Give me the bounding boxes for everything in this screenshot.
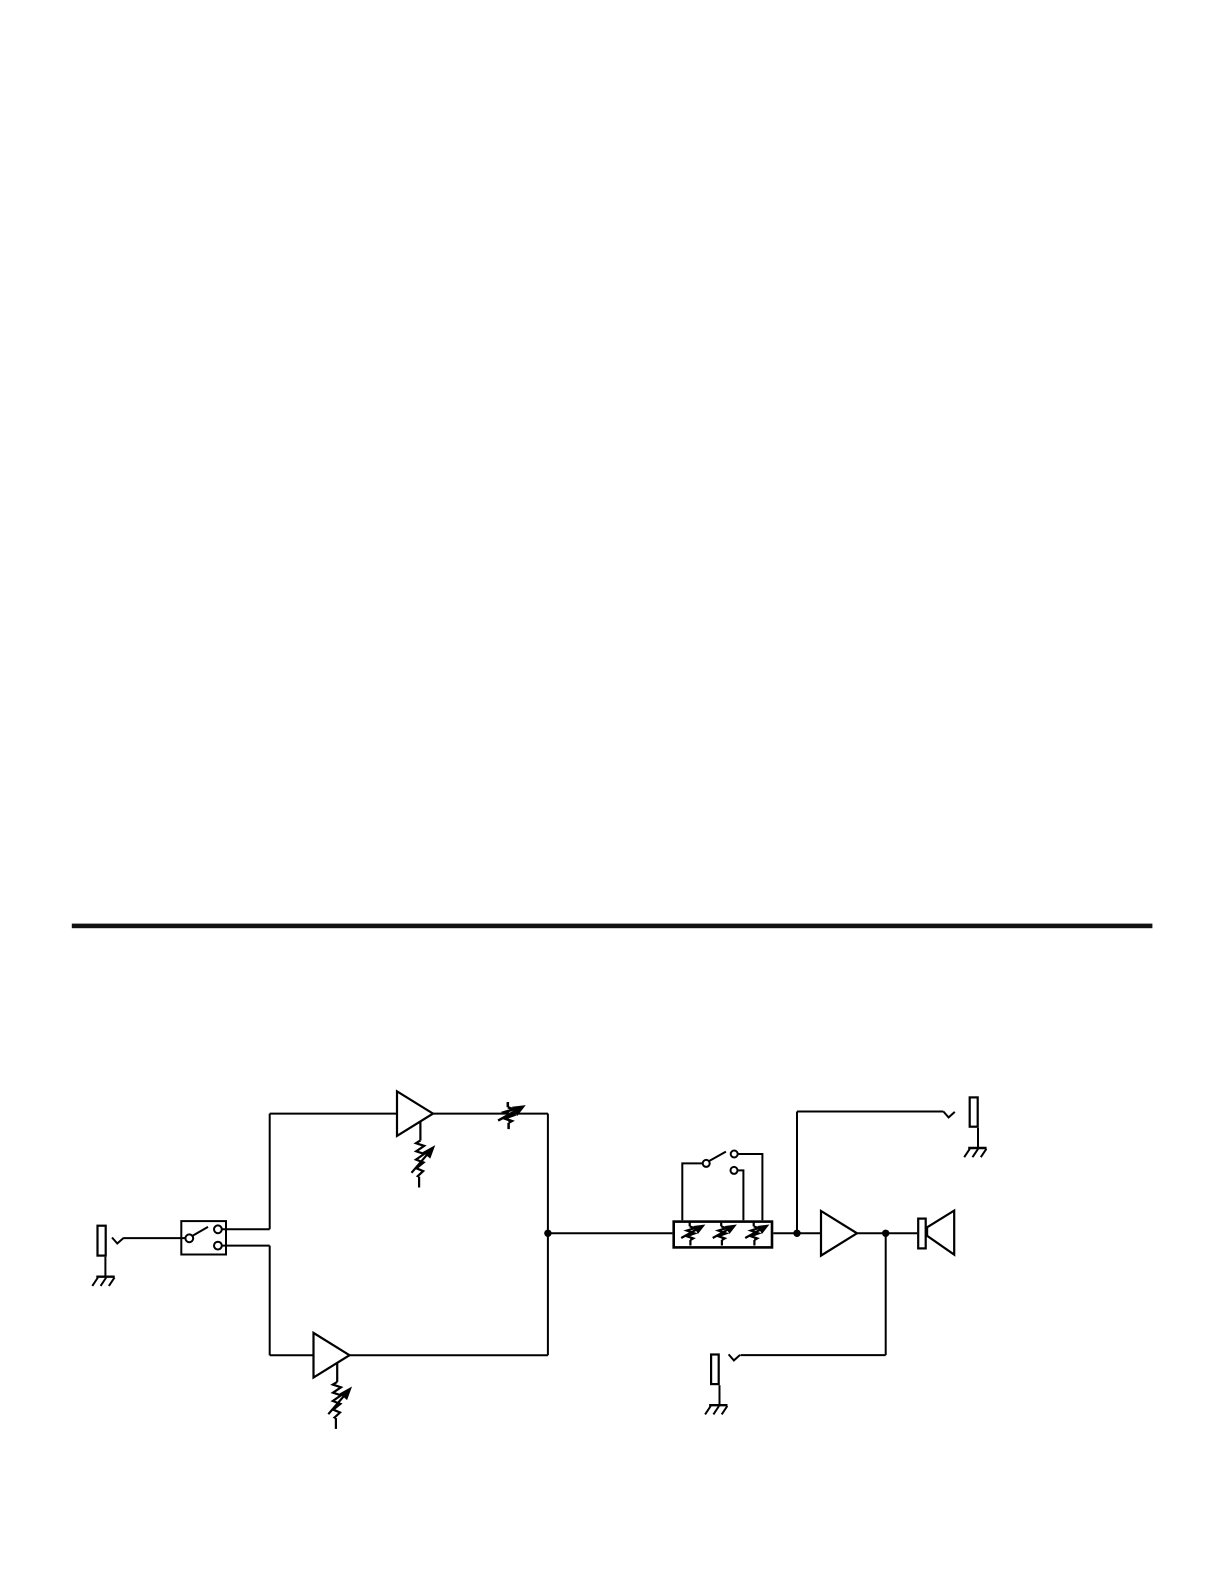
jack J3 tip contact <box>729 1354 741 1360</box>
wire node C to speaker <box>886 1232 917 1234</box>
wire amp A2 output <box>350 1354 548 1356</box>
jack J2 tip contact <box>943 1111 955 1117</box>
variable resistor VR1 (gain of A1) <box>412 1122 435 1188</box>
ground (input jack) <box>92 1277 114 1286</box>
switch S1 throw contact 2 <box>214 1242 222 1250</box>
wire node A to attenuator box <box>548 1232 673 1234</box>
speaker SP1 horn <box>927 1211 954 1255</box>
amp A2 <box>314 1333 350 1378</box>
wire switch throw 2 to lower branch <box>222 1245 270 1247</box>
wire branch-merge vertical <box>547 1114 549 1356</box>
jack J2 sleeve stem wire <box>977 1128 979 1147</box>
jack J3 (ext speaker) body <box>711 1355 719 1385</box>
wire throw 1 to attenuator right tap <box>738 1154 763 1220</box>
attenuator box (3-position) <box>674 1222 772 1248</box>
selector switch S2 pole contact <box>703 1160 710 1167</box>
variable resistor VR5 (attenuator position 2) <box>713 1222 736 1246</box>
wire upper branch to amp A1 <box>270 1113 397 1115</box>
wire node C dropper <box>885 1233 887 1355</box>
wire upper branch riser <box>269 1114 271 1230</box>
variable resistor VR3 (series, upper branch) <box>498 1102 525 1129</box>
switch S1 pole contact <box>185 1234 193 1242</box>
ground (jack J3) <box>705 1405 727 1414</box>
wire lower branch dropper <box>269 1246 271 1356</box>
variable resistor VR6 (attenuator position 3) <box>745 1222 768 1246</box>
selector switch S2 throw contact 2 <box>731 1167 738 1174</box>
variable resistor VR4 (attenuator position 1) <box>681 1222 704 1246</box>
wire input jack to switch S1 <box>123 1237 185 1239</box>
jack J3 sleeve stem wire <box>719 1385 721 1404</box>
amp A3 (power amp) <box>821 1211 857 1256</box>
wire attenuator output <box>773 1232 797 1234</box>
wire attenuator tap left riser <box>682 1163 702 1220</box>
switch S1 throw contact 1 <box>214 1225 222 1233</box>
wire line-out horizontal <box>797 1111 943 1113</box>
wire switch throw 1 to upper branch <box>222 1228 270 1230</box>
ground (jack J2) <box>964 1148 986 1157</box>
wire to external speaker jack <box>741 1354 886 1356</box>
wire node B to amp A3 <box>797 1232 821 1234</box>
node A (branch merge junction) <box>544 1230 551 1237</box>
variable resistor VR2 (gain of A2) <box>328 1363 351 1429</box>
jack J1 tip contact <box>112 1238 124 1244</box>
switch S1 lever <box>193 1227 208 1236</box>
wire node B riser to line-out <box>796 1112 798 1234</box>
jack J2 (line out) body <box>970 1097 978 1126</box>
node B (preamp out junction) <box>793 1230 800 1237</box>
wire lower branch to amp A2 <box>270 1354 314 1356</box>
selector switch S2 lever <box>709 1152 726 1161</box>
speaker SP1 driver body <box>918 1219 926 1249</box>
node C (speaker junction) <box>882 1230 889 1237</box>
jack J1 sleeve stem wire <box>104 1257 106 1276</box>
wire amp A1 output <box>433 1113 548 1115</box>
amp A1 <box>397 1091 433 1136</box>
selector switch S2 throw contact 1 <box>731 1151 738 1158</box>
horizontal rule <box>72 924 1153 929</box>
wire amp A3 output <box>857 1232 886 1234</box>
jack J1 (input) body <box>98 1226 106 1256</box>
wire throw 2 to attenuator middle tap <box>738 1170 744 1220</box>
switch S1 box <box>181 1221 226 1254</box>
